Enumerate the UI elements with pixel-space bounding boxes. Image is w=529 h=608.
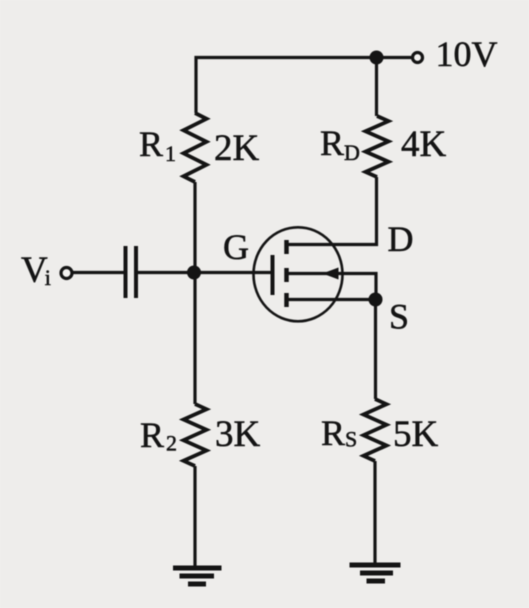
svg-text:D: D	[388, 219, 414, 259]
svg-text:2K: 2K	[214, 128, 260, 169]
svg-text:3K: 3K	[215, 414, 261, 455]
svg-text:G: G	[223, 227, 249, 267]
MOSFET Q1 body circle	[254, 227, 343, 321]
wire capacitor to gate node	[138, 271, 195, 274]
junction node source	[369, 293, 383, 307]
svg-text:4K: 4K	[401, 124, 447, 165]
wire RS to ground	[373, 461, 376, 565]
svg-text:S: S	[389, 297, 409, 337]
MOSFET Q1 channel segment top (drain)	[284, 240, 289, 254]
wire body lead to source node	[288, 274, 376, 300]
MOSFET Q1 gate bar	[271, 255, 275, 295]
wire source lead	[288, 298, 376, 301]
svg-text:Vi: Vi	[21, 250, 51, 291]
wire gate node to MOSFET gate	[194, 271, 271, 274]
wire drain lead to RD	[288, 177, 377, 245]
MOSFET Q1 body arrow	[323, 268, 339, 280]
resistor R1 zigzag	[184, 113, 207, 182]
ground symbol right	[350, 565, 401, 581]
capacitor C1 left plate	[124, 246, 128, 298]
svg-text:5K: 5K	[393, 414, 439, 455]
wire top supply rail	[196, 58, 411, 114]
wire R2 to ground	[193, 466, 196, 568]
junction node gate	[187, 266, 201, 280]
terminal 10V open circle	[413, 53, 423, 63]
wire VDD node to RD	[375, 58, 378, 117]
svg-text:10V: 10V	[436, 34, 498, 74]
MOSFET Q1 channel segment middle (body)	[284, 268, 289, 282]
resistor RD zigzag	[366, 116, 389, 177]
wire source node to RS	[374, 300, 377, 400]
junction node at VDD rail	[370, 51, 384, 65]
terminal Vi open circle	[61, 268, 72, 279]
MOSFET Q1 channel segment bottom (source)	[284, 293, 289, 307]
resistor RS zigzag	[364, 399, 387, 461]
wire gate node to R2	[193, 273, 196, 405]
capacitor C1 right plate	[134, 246, 138, 298]
ground symbol left	[173, 568, 222, 584]
wire R1 bottom to gate node	[193, 182, 196, 273]
resistor R2 zigzag	[184, 404, 207, 466]
wire Vi terminal to capacitor	[71, 271, 124, 274]
